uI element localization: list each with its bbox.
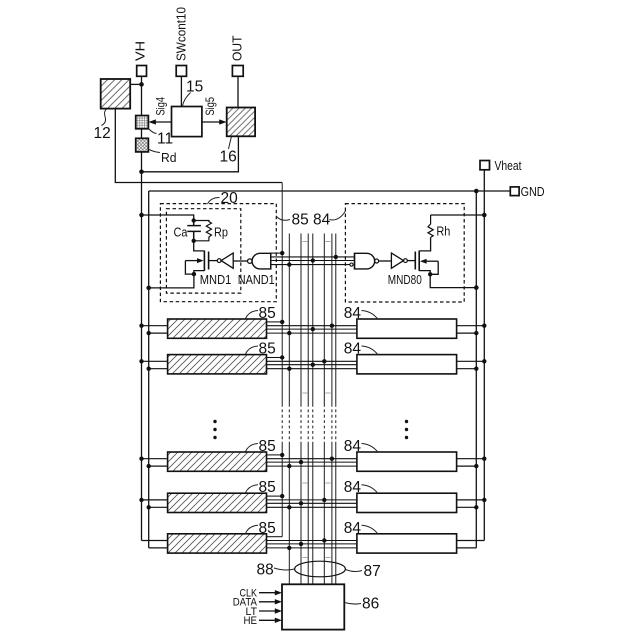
wire 12 to VH rail — [130, 83, 141, 85]
terminal Vheat — [480, 161, 490, 170]
heating element 84 row 4 — [357, 493, 457, 512]
leader for 12 — [102, 109, 107, 126]
inner dashed box — [166, 209, 240, 293]
svg-text:85: 85 — [259, 305, 276, 322]
row continuation dots left — [213, 420, 216, 423]
wire w3 NAND1 to NAND80 — [271, 260, 355, 262]
terminal SWcont10 — [176, 66, 186, 77]
row 1 wires left — [142, 326, 168, 333]
heater resistor 85 row 5 — [168, 534, 267, 553]
svg-text:16: 16 — [220, 149, 237, 166]
wire inverter1 out to MND1 gate — [209, 260, 218, 262]
heating element 84 row 1 — [357, 319, 457, 338]
wire inverter2 out to MND80 gate — [407, 260, 415, 262]
svg-text:Vheat: Vheat — [495, 158, 522, 173]
resistor Rp — [194, 221, 212, 241]
wire NAND1 input w1 to bus b1 — [271, 252, 282, 254]
node Ca/Rp top — [192, 218, 196, 222]
svg-text:88: 88 — [257, 562, 274, 579]
terminal GND — [510, 187, 519, 196]
svg-text:84: 84 — [344, 341, 362, 358]
array box left edge rail — [148, 191, 150, 548]
wire MND1 source to left rail — [149, 274, 194, 288]
dashed box right (84 cell) — [345, 204, 464, 302]
leader for 20 — [208, 198, 220, 205]
svg-text:NAND1: NAND1 — [238, 272, 275, 287]
heater resistor 85 row 3 — [168, 452, 267, 471]
svg-text:85: 85 — [259, 341, 276, 358]
leaders for row labels 85 — [246, 311, 259, 319]
svg-text:MND80: MND80 — [388, 272, 422, 287]
wire 16 bottom to VH rail — [142, 136, 239, 172]
row 2 wires middle — [267, 358, 357, 369]
leader for Rd — [149, 150, 160, 153]
controller 15 — [172, 107, 202, 137]
row 1 wires right — [457, 326, 485, 333]
row continuation dots right — [405, 420, 408, 423]
resistor Rh — [428, 215, 433, 237]
row 3 wires left — [142, 459, 168, 466]
Vheat rail — [483, 170, 485, 541]
svg-text:Rd: Rd — [161, 150, 177, 165]
transistor MND80 — [418, 251, 420, 271]
terminal OUT — [232, 66, 243, 77]
row 5 wires left — [142, 541, 168, 548]
svg-text:SWcont10: SWcont10 — [174, 7, 189, 61]
svg-text:MND1: MND1 — [200, 272, 232, 287]
cable marker 87 — [295, 561, 346, 577]
bus lines 88 — [282, 183, 336, 585]
transistor MND1 — [203, 251, 205, 271]
capacitor Ca — [187, 221, 201, 241]
leader for 11 — [149, 129, 157, 134]
wire NAND80 out to inverter2 — [379, 260, 392, 262]
row 1 wires middle — [267, 322, 357, 333]
svg-text:11: 11 — [157, 131, 173, 148]
row 4 wires left — [142, 500, 168, 507]
svg-text:87: 87 — [364, 563, 381, 580]
wire MND80 source to GND rail — [430, 274, 476, 287]
wire Ca/Rp bottom to MND1 drain — [194, 241, 205, 251]
nand gate NAND80 — [350, 263, 353, 266]
svg-text:12: 12 — [94, 125, 111, 142]
row 5 wires right — [457, 541, 485, 548]
block 16 — [227, 108, 255, 137]
wire w2 NAND1 to NAND80 — [271, 256, 355, 258]
leader for 86 — [345, 603, 362, 605]
block 12 — [101, 79, 131, 109]
leader for top 84 — [330, 211, 346, 220]
wire 12 bottom to bus line b1 — [115, 109, 282, 183]
wire w4 NAND1 to NAND80 inverted input — [271, 264, 350, 266]
VH rail — [141, 76, 143, 540]
heater resistor 85 row 1 — [168, 319, 267, 338]
heater resistor 85 row 2 — [168, 355, 267, 374]
svg-text:Rp: Rp — [214, 225, 228, 240]
row 2 wires left — [142, 361, 168, 368]
svg-text:84: 84 — [313, 212, 331, 229]
svg-text:20: 20 — [221, 190, 239, 207]
leader for 16 — [229, 137, 232, 150]
svg-text:85: 85 — [259, 520, 276, 537]
svg-text:84: 84 — [344, 305, 362, 322]
svg-text:84: 84 — [344, 479, 362, 496]
terminal VH — [137, 66, 147, 77]
svg-text:84: 84 — [344, 520, 362, 537]
inverter INV2 (points right) — [391, 253, 403, 268]
wire NAND1 out to inverter1 — [233, 260, 247, 262]
bus continuation ticks — [303, 242, 331, 558]
svg-text:GND: GND — [521, 184, 545, 199]
row 3 wires middle — [267, 455, 357, 466]
wire VH rail to Ca/Rp top — [142, 215, 194, 221]
leaders for row labels 84 — [362, 311, 379, 320]
svg-text:86: 86 — [362, 596, 379, 613]
svg-text:85: 85 — [259, 438, 276, 455]
switch 11 — [136, 116, 149, 129]
GND top wire / array box top edge — [149, 190, 511, 192]
heating element 84 row 2 — [357, 355, 457, 374]
row 5 wires middle — [267, 537, 357, 548]
svg-text:85: 85 — [259, 479, 276, 496]
wire Sig5 arrow 15 to 16 — [202, 121, 224, 123]
wire MND80 drain to Rh — [419, 237, 430, 251]
input arrows CLK DATA LT HE — [259, 592, 280, 594]
svg-text:Sig4: Sig4 — [153, 97, 167, 116]
driver IC 86 — [282, 584, 344, 629]
leader for 87 — [346, 570, 363, 572]
row 2 wires right — [457, 361, 485, 368]
resistor Rd — [136, 138, 149, 152]
svg-text:Rh: Rh — [436, 224, 450, 239]
wire OUT to 16 — [237, 76, 239, 107]
svg-text:OUT: OUT — [230, 35, 245, 61]
row 4 wires right — [457, 500, 485, 507]
row 4 wires middle — [267, 496, 357, 507]
svg-text:84: 84 — [344, 438, 362, 455]
svg-text:HE: HE — [244, 615, 258, 627]
inverter INV1 (points left) — [217, 259, 221, 263]
leader for top 85 — [277, 217, 291, 221]
node Ca/Rp bottom — [192, 239, 196, 243]
node GND rail branch — [474, 189, 479, 194]
nand gate NAND1 (mirrored, output left) — [248, 259, 253, 264]
GND rail (array box right edge) — [475, 191, 477, 548]
heating element 84 row 3 — [357, 452, 457, 471]
svg-text:15: 15 — [186, 79, 203, 96]
svg-text:Ca: Ca — [174, 225, 189, 240]
wire Rh top to Vheat rail — [431, 214, 485, 216]
wire Sig4 arrow 15 to 11 — [151, 121, 172, 123]
heating element 84 row 5 — [357, 534, 457, 553]
leader for 15 — [183, 93, 191, 107]
svg-text:85: 85 — [292, 212, 309, 229]
svg-text:Sig5: Sig5 — [203, 97, 217, 116]
dashed box 20 — [160, 204, 276, 302]
row 3 wires right — [457, 459, 485, 466]
heater resistor 85 row 4 — [168, 493, 267, 512]
leader for 88 — [274, 568, 295, 570]
svg-text:VH: VH — [133, 41, 148, 61]
wire SWcont10 to 15 — [180, 76, 182, 106]
